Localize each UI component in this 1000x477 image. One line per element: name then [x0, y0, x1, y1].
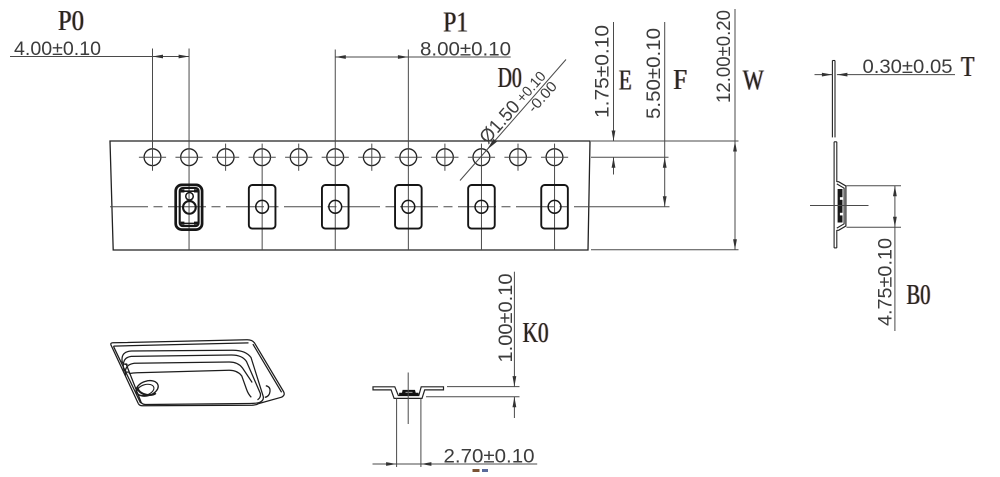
tape bottom edge extension	[591, 249, 739, 251]
pocket 6 centerline	[554, 144, 556, 250]
svg-text:4.00±0.10: 4.00±0.10	[14, 39, 101, 60]
svg-text:1.75±0.10: 1.75±0.10	[592, 25, 613, 118]
P0 right extension / pocket 1 centerline	[188, 49, 190, 251]
cross-section component (black)	[400, 390, 418, 395]
cross-section center line	[407, 373, 409, 425]
sprocket hole 2	[181, 149, 198, 166]
dimension A0 2.70±0.10	[396, 399, 398, 468]
component pocket 3 (empty)	[322, 185, 349, 229]
carrier tape outline (top view)	[110, 141, 590, 250]
label A0 (cut off at bottom)	[473, 469, 480, 472]
tape top edge extension	[591, 140, 739, 142]
pocket row extension line	[591, 206, 670, 208]
dimension W 12.00±0.20	[734, 9, 736, 250]
P1 right extension / pocket 4 centerline	[407, 50, 409, 251]
component pocket 4 (empty)	[395, 185, 422, 229]
label K0	[522, 318, 549, 349]
side view tape strip (lower)	[833, 142, 835, 248]
dimension P1 8.00±0.10	[335, 56, 510, 58]
side view component (section)	[838, 189, 843, 223]
P1 left extension / pocket 3 centerline	[334, 50, 336, 251]
dimension K0 1.00±0.10	[447, 386, 520, 388]
sprocket hole 12	[546, 149, 563, 166]
horizontal dash-dot center line through pockets	[110, 206, 591, 208]
sprocket hole 8	[400, 149, 417, 166]
svg-text:F: F	[673, 65, 687, 96]
component pocket 5 (empty)	[468, 185, 495, 229]
side view center line	[810, 205, 869, 207]
dimension T 0.30±0.05	[815, 74, 833, 76]
P0 left extension line	[152, 49, 154, 171]
iso: oval hole	[111, 340, 284, 404]
label W	[742, 66, 765, 97]
sprocket hole 11	[510, 149, 527, 166]
side view tape strip (upper)	[831, 61, 833, 138]
component pocket 1 with part inside	[176, 185, 202, 230]
dimension P0 4.00±0.10	[10, 56, 189, 58]
pocket 5 centerline	[480, 144, 482, 250]
svg-text:W: W	[743, 66, 764, 97]
label P1	[443, 8, 469, 39]
dimension B0 4.75±0.10	[847, 185, 902, 187]
label F	[673, 65, 688, 96]
sprocket hole 10	[473, 149, 490, 166]
sprocket row extension line	[591, 156, 669, 158]
svg-text:2.70±0.10: 2.70±0.10	[444, 447, 535, 468]
component pocket 6 (empty)	[541, 185, 568, 229]
svg-text:1.00±0.10: 1.00±0.10	[496, 274, 517, 363]
label T	[960, 52, 975, 83]
svg-text:8.00±0.10: 8.00±0.10	[420, 40, 511, 61]
label D0	[497, 63, 522, 94]
svg-text:K0: K0	[523, 318, 549, 349]
component pocket 2 (empty)	[249, 185, 276, 229]
svg-text:12.00±0.20: 12.00±0.20	[714, 10, 735, 103]
svg-text:0.30±0.05: 0.30±0.05	[863, 57, 953, 78]
sprocket hole 4	[254, 149, 271, 166]
svg-text:B0: B0	[907, 280, 931, 311]
sprocket hole 3	[217, 149, 234, 166]
label B0	[906, 280, 931, 311]
svg-text:4.75±0.10: 4.75±0.10	[875, 238, 896, 326]
pocket 2 centerline	[261, 144, 263, 250]
svg-text:T: T	[961, 52, 975, 83]
sprocket hole 5	[290, 149, 307, 166]
sprocket hole 7	[363, 149, 380, 166]
svg-text:P1: P1	[443, 8, 468, 39]
svg-text:P0: P0	[58, 6, 84, 37]
svg-text:5.50±0.10: 5.50±0.10	[644, 28, 665, 119]
label P0	[57, 6, 84, 37]
rotated dia text Ø1.50 +0.10/-0.00	[476, 67, 561, 157]
sprocket hole 9	[437, 149, 454, 166]
dimension F 5.50±0.10	[664, 22, 666, 207]
cross-section of pocket (bottom middle)	[373, 387, 444, 399]
svg-text:D0: D0	[498, 63, 522, 94]
leader line D0 (sprocket hole diameter)	[460, 60, 566, 181]
sprocket hole 1	[144, 149, 161, 166]
label E	[618, 66, 632, 97]
svg-text:E: E	[619, 66, 632, 97]
side view pocket profile	[837, 182, 846, 231]
sprocket hole 6	[327, 149, 344, 166]
dimension E 1.75±0.10	[613, 22, 615, 141]
